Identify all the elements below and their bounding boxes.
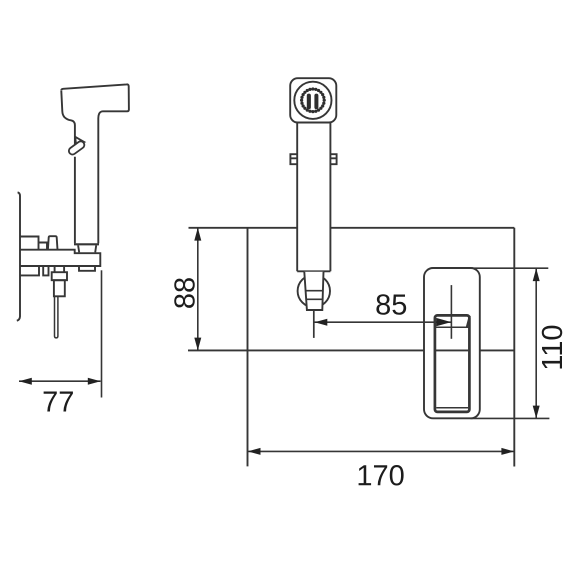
- ball joint cylinder: [304, 272, 323, 310]
- svg-text:170: 170: [356, 460, 404, 492]
- plate bottom edge segments: [188, 349, 514, 351]
- mounting bar side view: [20, 250, 100, 266]
- svg-text:110: 110: [537, 324, 568, 370]
- dim 110 top extension: [471, 267, 549, 269]
- below-bar block 2: [43, 266, 48, 275]
- flush button outer: [435, 315, 470, 412]
- dim 110 line: [535, 268, 537, 418]
- neck left line below clip: [74, 157, 76, 244]
- button center mark: [450, 285, 452, 339]
- arrow 88 down: [194, 338, 201, 351]
- arrow 170 left: [248, 448, 261, 455]
- below-bar block left: [20, 266, 39, 275]
- arrow 110 up: [533, 268, 540, 281]
- wall line: [17, 192, 20, 320]
- valve wide body: [52, 272, 67, 280]
- front head gear ring: [300, 87, 326, 113]
- plate left edge with 170 extension: [247, 228, 249, 467]
- dim 170 line: [248, 450, 515, 452]
- flush button bottom inner line: [436, 407, 468, 409]
- arrow 170 right: [501, 448, 514, 455]
- arrow 77 left: [19, 378, 32, 385]
- arrow 77 right: [88, 378, 101, 385]
- svg-text:85: 85: [375, 289, 407, 321]
- arrow 85 right: [436, 318, 451, 326]
- plate top edge with 88 extension: [189, 227, 515, 229]
- front handle bottom edge: [297, 270, 330, 272]
- dim 88 line: [197, 228, 199, 350]
- front head bar right: [314, 94, 318, 110]
- flush valve plate rounded rect: [424, 268, 480, 418]
- front tab right: [330, 154, 336, 164]
- neck bottom edge: [74, 243, 99, 245]
- knob B3: [48, 236, 58, 250]
- svg-text:88: 88: [169, 277, 201, 309]
- flush button top band: [436, 326, 469, 328]
- valve top rect: [55, 266, 65, 272]
- plate bottom line across button: [436, 349, 468, 351]
- dim 77 extension line: [101, 270, 103, 397]
- flush button fold: [467, 316, 470, 327]
- valve rod: [55, 296, 58, 338]
- dim 77 line: [19, 380, 101, 382]
- arrow 110 down: [533, 406, 540, 419]
- sprayer head side left edge and neck: [61, 91, 75, 147]
- ball joint sphere: [298, 275, 330, 307]
- wall block B2: [39, 243, 48, 250]
- front head rounded square: [290, 78, 336, 122]
- dim 110 bottom extension: [471, 417, 550, 419]
- arrow 88 up: [194, 228, 201, 241]
- sprayer head side view outline: [61, 84, 129, 243]
- svg-text:77: 77: [42, 386, 74, 418]
- front head outer circle: [294, 82, 331, 119]
- wall block B1: [20, 237, 39, 250]
- water stream line: [313, 310, 315, 338]
- trigger clip pill: [67, 140, 85, 156]
- hose connector flat: [79, 266, 95, 271]
- arrow 85 left: [315, 319, 328, 326]
- trigger clip hook triangle: [75, 137, 84, 145]
- ball joint band lines: [306, 291, 324, 300]
- collar nut sides: [78, 245, 96, 252]
- front head bar left: [307, 94, 311, 110]
- front handle body sides: [297, 123, 330, 272]
- front tab left: [290, 154, 297, 164]
- valve lower body: [54, 280, 65, 296]
- plate right edge with 170 extension: [513, 228, 515, 467]
- dim 85 line: [315, 321, 452, 323]
